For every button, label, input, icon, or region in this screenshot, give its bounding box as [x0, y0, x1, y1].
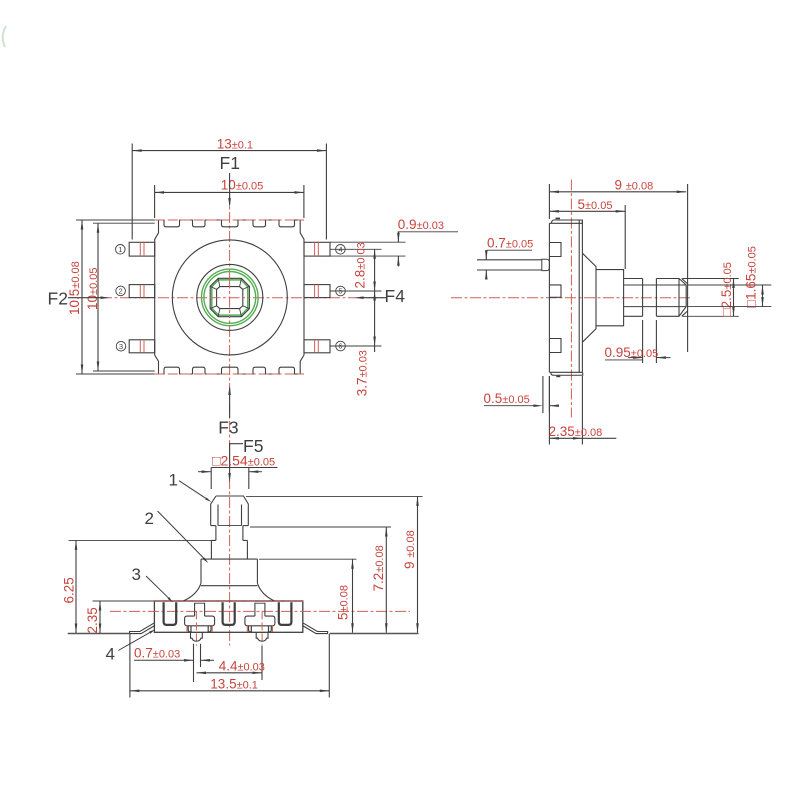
part label 3 leader [146, 576, 171, 600]
svg-text:7.2±0.08: 7.2±0.08 [371, 545, 386, 591]
side neck groove [643, 284, 657, 286]
side dim 2.5 arrows [732, 279, 735, 289]
part label 4 leader [118, 631, 153, 651]
svg-text:5±0.05: 5±0.05 [578, 197, 613, 212]
stem octagon outer [210, 278, 249, 316]
F2 arrow [68, 297, 102, 299]
side dim 2.5 extensions [683, 278, 739, 280]
dim 6.25 arrows [75, 540, 78, 550]
dim 7.2 arrows [385, 527, 388, 537]
dim 13.5 arrows [130, 690, 140, 693]
actuator inner circle [197, 264, 263, 330]
dim 13.5 extensions [129, 634, 131, 698]
side terminal boss 2 [549, 285, 561, 297]
front shaft step [211, 539, 216, 541]
actuator outer circle [172, 240, 287, 355]
side plate top tab [556, 217, 561, 219]
F4 arrow [362, 297, 386, 299]
svg-text:F1: F1 [220, 153, 240, 173]
red dashed line top edge [155, 219, 304, 221]
svg-text:5±0.08: 5±0.08 [336, 585, 351, 620]
left pin 2 red plating lines [139, 285, 141, 298]
dim 2.8/3.7 vertical line [374, 249, 376, 352]
red centerline front pin 2 [261, 611, 263, 645]
edge mark [3, 26, 6, 47]
right mounting foot [302, 623, 327, 633]
left pin 3 (terminal) [129, 340, 155, 353]
svg-text:5: 5 [338, 287, 342, 296]
side dim 2.5 line [733, 279, 735, 317]
side dim 0.7 arrow lines [485, 250, 487, 260]
side dim 0.95 extensions [642, 320, 644, 363]
side dim 2.35 arrows [549, 437, 559, 440]
svg-text:□2.54±0.05: □2.54±0.05 [212, 452, 275, 468]
dim 2.35 line [99, 601, 101, 633]
svg-text:13.5±0.1: 13.5±0.1 [210, 677, 258, 692]
side pin cap [542, 259, 550, 270]
contact terminal 1 neck [194, 603, 196, 616]
contact terminal 1 red marks [186, 626, 188, 632]
contact terminal 2 feet [249, 626, 272, 632]
top edge notch 1 [164, 220, 180, 227]
side dim 0.5 extensions [542, 376, 544, 413]
terminal number 3 [116, 341, 126, 351]
terminal 5 leader line [330, 290, 382, 292]
centerline vertical (top view + front view, F1-F3-F5 axis) [229, 193, 231, 646]
right pin 6 red plating lines [314, 340, 316, 353]
centerline horizontal top view (F2-F4 axis) [101, 297, 384, 299]
right pin 4 red plating lines [314, 242, 316, 256]
dim 2.54 leader [211, 467, 277, 469]
svg-text:1: 1 [169, 471, 178, 490]
dim 10 vertical extension lines [93, 222, 155, 224]
svg-text:13±0.1: 13±0.1 [217, 136, 253, 151]
left mounting foot [130, 623, 155, 633]
svg-text:2: 2 [145, 509, 154, 528]
red dashed line bottom edge [155, 373, 304, 375]
seating plane line [68, 633, 130, 635]
front actuator block [201, 559, 257, 583]
dim 13.5 line [130, 690, 329, 692]
dim 2.54 arrows [198, 471, 211, 473]
contact terminal 2 red marks [246, 626, 248, 632]
right pin 5 red plating lines [314, 285, 316, 298]
contact terminal 2 bar [245, 616, 275, 626]
stem octagon green inset [212, 280, 248, 315]
F1 arrow [229, 173, 231, 205]
dim 0.7 front extensions [193, 644, 195, 682]
green ring inner [204, 272, 256, 324]
left pin 1 red plating lines [139, 242, 141, 256]
bottom edge notch 1 [164, 367, 180, 374]
dim 10 extension lines [154, 185, 156, 218]
dim 0.9 extension lines [330, 241, 406, 243]
side dim 0.5 leader [484, 405, 537, 407]
dim 10.5 extension lines [76, 219, 155, 221]
side dim 0.7 leader [487, 249, 532, 251]
red dashdot terminal row line [110, 610, 410, 612]
side plate bottom cap [549, 372, 582, 375]
stem inner square [217, 287, 243, 309]
svg-text:10±0.05: 10±0.05 [85, 268, 100, 310]
dim 0.9 leader [398, 231, 458, 233]
right pin 4 (terminal) [304, 242, 330, 256]
dim 7.2 extension [250, 526, 391, 528]
top edge notch 5 [279, 220, 295, 227]
side dim 9 extensions [548, 184, 550, 219]
dim 5 front line [352, 559, 354, 633]
svg-text:F4: F4 [385, 286, 406, 306]
dim 10 vertical arrows [97, 223, 100, 233]
dim 10 arrows [155, 191, 165, 194]
side cone (dome) [582, 253, 596, 342]
svg-text:3: 3 [119, 342, 123, 351]
F5 arrow [230, 444, 243, 474]
svg-text:0.95±0.05: 0.95±0.05 [605, 345, 659, 360]
front solder pin 1 [191, 633, 203, 642]
top view switch body outline [155, 220, 304, 374]
side knob [656, 279, 687, 317]
svg-text:4: 4 [338, 245, 342, 254]
svg-text:6: 6 [338, 342, 342, 351]
contact terminal 2 neck [254, 603, 256, 616]
side shaft square section [624, 279, 643, 317]
dim 13 line [132, 150, 326, 152]
dim 0.9 arrows [397, 233, 400, 243]
side dim 1.65 extensions [687, 284, 771, 286]
dim 13 arrows [132, 149, 142, 152]
dim 10 vertical line [97, 223, 99, 371]
green ring outer [202, 269, 259, 326]
svg-text:2.35±0.08: 2.35±0.08 [549, 424, 603, 439]
side dim 0.95 arrows [628, 357, 643, 359]
base slot 1 [164, 602, 177, 625]
svg-text:4: 4 [106, 645, 115, 664]
contact terminal 1 feet [188, 626, 211, 632]
front shaft lower [210, 540, 212, 559]
side pin lines [477, 259, 542, 261]
dim 2.8 arrows [373, 249, 376, 258]
terminal 4 leader line [330, 248, 382, 250]
part label 1 leader [179, 481, 209, 501]
dim 9 front line [417, 496, 419, 632]
bottom edge notch 2 [193, 367, 206, 374]
side plate right edges [578, 220, 580, 373]
dim 2.35 extension top [93, 600, 155, 602]
side dim 9 arrows [549, 191, 559, 194]
side terminal boss 1 [549, 243, 561, 257]
svg-text:□2.5±0.05: □2.5±0.05 [719, 262, 734, 316]
dim 7.2 line [385, 527, 387, 633]
terminal number 1 [116, 245, 126, 255]
svg-text:0.7±0.03: 0.7±0.03 [134, 645, 180, 660]
bottom edge notch 3 [222, 367, 239, 374]
side plate top cap [549, 220, 582, 223]
F3 arrow [229, 388, 231, 418]
right pin 5 (terminal) [304, 285, 330, 298]
svg-text:10±0.05: 10±0.05 [221, 177, 263, 192]
dim 10.5 arrows [81, 220, 84, 230]
side view centerline horizontal [451, 297, 691, 299]
stem bevel diagonals [210, 278, 249, 316]
base slot 3 [279, 602, 292, 625]
red centerline front pin 1 [195, 611, 197, 645]
dim 0.9 arrow lines [397, 232, 399, 242]
front shaft neck [215, 526, 217, 541]
left pin 1 (terminal) [129, 242, 155, 256]
side shaft chamfer lines [624, 284, 687, 286]
svg-text:9 ±0.08: 9 ±0.08 [615, 177, 654, 192]
dim 13 extension lines [131, 144, 133, 240]
svg-text:6.25: 6.25 [62, 577, 77, 603]
side view centerline vertical [570, 180, 572, 418]
svg-text:10.5±0.08: 10.5±0.08 [67, 261, 82, 315]
svg-text:4.4±0.03: 4.4±0.03 [219, 659, 265, 674]
side dim 0.7 arrows [485, 250, 488, 259]
side plate left edge [548, 223, 550, 372]
contact terminal 1 bar [185, 616, 215, 626]
side dim 1.65 arrows [761, 285, 764, 295]
front base outline [154, 601, 302, 632]
side terminal boss 3 [549, 339, 561, 353]
dim 4.4 extensions [261, 646, 263, 680]
dim 5 front arrows [351, 559, 354, 569]
svg-text:F3: F3 [218, 418, 238, 438]
side plate bottom tab [556, 375, 560, 377]
terminal number 6 [336, 341, 346, 351]
terminal number 5 [336, 286, 346, 296]
dim 0.7 front leader [134, 659, 194, 661]
side dim 5 line [549, 210, 625, 212]
dim 2.35 arrows [99, 601, 102, 611]
svg-text:0.5±0.05: 0.5±0.05 [484, 391, 530, 406]
terminal 6 leader line [330, 345, 382, 347]
dim 10.5 vertical line [81, 220, 83, 374]
svg-text:1: 1 [118, 245, 122, 254]
front knob base step [211, 525, 216, 527]
front solder pin 2 [256, 633, 268, 642]
side dim 0.95 leader [605, 359, 643, 361]
svg-text:3: 3 [132, 565, 141, 584]
dim 2.54 extension lines [210, 468, 212, 490]
bottom edge notch 4 [253, 367, 266, 374]
svg-text:0.7±0.05: 0.7±0.05 [487, 235, 533, 250]
left pin 3 red plating lines [139, 340, 141, 353]
svg-text:2.35: 2.35 [85, 607, 100, 633]
svg-text:3.7±0.03: 3.7±0.03 [355, 350, 370, 396]
top edge notch 3 [222, 220, 239, 227]
front dome shoulders [183, 583, 274, 601]
svg-text:□1.65±0.05: □1.65±0.05 [744, 246, 759, 308]
front knob (shaft tip) [211, 496, 249, 526]
dim 4.4 line [197, 672, 263, 674]
top edge notch 2 [193, 220, 206, 227]
side dim 1.65 line [762, 285, 764, 307]
side dim 9 line [549, 191, 686, 193]
dim 3.7 arrows [373, 291, 376, 301]
part label 2 leader [158, 511, 207, 561]
terminal number 2 [116, 286, 126, 296]
svg-text:F2: F2 [48, 289, 68, 309]
side dim 2.35 extensions [548, 376, 550, 445]
left pin 2 (terminal) [129, 285, 155, 298]
top edge notch 4 [253, 220, 266, 227]
base slot 2 [223, 602, 235, 625]
side boss cylinder [596, 270, 624, 326]
svg-text:2.8±0.03: 2.8±0.03 [353, 242, 368, 288]
svg-text:9 ±0.08: 9 ±0.08 [402, 530, 417, 569]
side dim 5 arrows [549, 210, 559, 213]
dim 5 front extension [259, 558, 357, 560]
svg-text:2: 2 [119, 287, 123, 296]
dim 4.4 arrows [197, 672, 207, 675]
dim 9 front extension [246, 495, 423, 497]
side dim 2.35 line [549, 437, 616, 439]
stem centerline overlay horizontal [210, 297, 250, 299]
svg-text:0.9±0.03: 0.9±0.03 [398, 217, 444, 232]
dim 10 line [155, 191, 304, 193]
side dim 5 extension [624, 205, 626, 269]
red dashed base top edge [154, 600, 302, 602]
bottom edge notch 5 [279, 367, 295, 374]
dim 6.25 extension top [69, 539, 217, 541]
dim 9 front arrows [416, 496, 419, 506]
right pin 6 (terminal) [304, 340, 330, 353]
dim 6.25 line [75, 540, 77, 633]
terminal number 4 [336, 245, 346, 255]
stem centerline overlay vertical [229, 278, 231, 318]
